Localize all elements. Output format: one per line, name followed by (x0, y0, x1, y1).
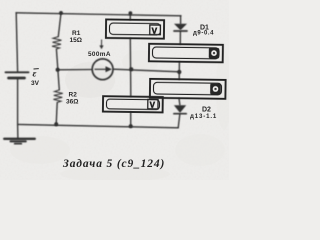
diode D1 to box2 (179, 32, 181, 45)
svg-text:ε: ε (33, 70, 37, 80)
junction bottom rail / R2 branch (54, 122, 58, 126)
wire middle left (R branch to meter) (58, 69, 92, 71)
diode D1 cathode bar (174, 30, 187, 32)
diode D2 cathode bar (174, 113, 186, 115)
junction R1-R2 node / meter wire (56, 68, 60, 72)
scan noise blobs (10, 50, 232, 182)
battery E 3V (6, 71, 29, 73)
wire box1 to box4 (129, 38, 132, 96)
svg-text:3V: 3V (31, 80, 40, 87)
lamp box B3 (ohm box) (150, 79, 226, 99)
wire left rail upper (16, 13, 17, 72)
svg-text:R1: R1 (72, 30, 81, 37)
resistor R1 (52, 37, 62, 49)
wire D2 to bottom rail (178, 114, 180, 127)
scan grain (0, 0, 229, 180)
junction meter wire / B1-B4 branch (129, 67, 133, 71)
svg-text:Задача 5 (с9_124): Задача 5 (с9_124) (62, 158, 165, 170)
wire box3 to D2 (178, 98, 181, 105)
svg-text:V: V (150, 101, 156, 110)
wire top rail (16, 13, 181, 16)
lamp box B1 (voltmeter box) (106, 19, 164, 38)
lamp box B4 (voltmeter box) (103, 96, 163, 112)
junction meter wire / B2-B3 branch (177, 70, 181, 74)
junction top rail / B1 branch (129, 11, 133, 15)
ground (17, 125, 19, 139)
wire box2 to box3 (178, 62, 180, 80)
resistor R2 (53, 90, 62, 103)
wire left rail lower (17, 79, 19, 125)
svg-text:д13-1.1: д13-1.1 (190, 113, 217, 120)
meter circle (92, 59, 113, 80)
wire R branch top stub (58, 13, 61, 37)
wire box column stub top (129, 13, 131, 20)
svg-text:500mA: 500mA (88, 51, 111, 58)
diode D1 stub (180, 16, 182, 24)
wire bottom rail (18, 124, 179, 127)
lamp box B2 (ohm box) (149, 44, 223, 63)
junction top rail / R1 branch (59, 11, 63, 15)
junction bottom rail / B4 branch (129, 124, 133, 128)
labels (31, 25, 217, 121)
svg-text:V: V (152, 27, 158, 36)
arrow above meter (101, 40, 102, 46)
wire box4 to bottom rail (130, 112, 132, 126)
diode D1 triangle (174, 24, 187, 31)
wire R2 to bottom rail (56, 103, 57, 125)
svg-text:15Ω: 15Ω (70, 37, 82, 44)
wire middle right (meter to right column) (113, 69, 179, 72)
wire R1 to R2 (56, 49, 59, 90)
meter arrow (95, 69, 107, 70)
svg-text:д9-0.4: д9-0.4 (193, 31, 214, 37)
svg-text:36Ω: 36Ω (66, 99, 78, 106)
svg-text:R2: R2 (69, 92, 78, 99)
diode D2 triangle (174, 105, 186, 113)
